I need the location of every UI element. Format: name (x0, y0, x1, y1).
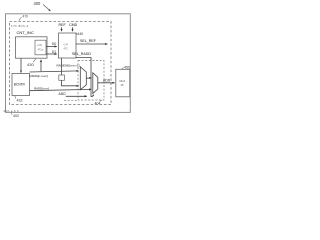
svg-text:ADD: ADD (103, 78, 111, 82)
svg-text:SEL_REF: SEL_REF (80, 39, 97, 43)
svg-text:BCNTR: BCNTR (14, 82, 26, 86)
svg-text:404: 404 (95, 102, 101, 106)
svg-text:C-R: C-R (64, 44, 69, 47)
svg-text:472: 472 (64, 48, 69, 51)
svg-text:432: 432 (17, 98, 23, 102)
svg-text:400: 400 (34, 1, 42, 6)
svg-text:430: 430 (27, 62, 34, 67)
svg-text:MCA: MCA (120, 79, 126, 83)
svg-text:CNT_INC: CNT_INC (17, 30, 34, 35)
svg-text:4Ch a b h: 4Ch a b h (3, 109, 19, 113)
svg-text:ADD: ADD (59, 92, 67, 96)
svg-text:17b 8Ch-4: 17b 8Ch-4 (11, 24, 29, 28)
svg-text:SEL_RADD: SEL_RADD (72, 52, 91, 56)
svg-text:471a: 471a (38, 48, 44, 51)
svg-text:D1: D1 (52, 50, 56, 54)
svg-text:450: 450 (124, 65, 130, 69)
svg-text:470: 470 (23, 15, 29, 19)
svg-text:440: 440 (77, 32, 83, 36)
svg-text:RADD[n-m]: RADD[n-m] (34, 86, 49, 90)
svg-text:+CN: +CN (37, 44, 42, 47)
svg-text:REF: REF (59, 23, 67, 27)
svg-text:RADD[n-m+1]: RADD[n-m+1] (30, 74, 48, 78)
svg-text:CMD: CMD (69, 23, 78, 27)
svg-text:RADEND[n-m+1]: RADEND[n-m+1] (57, 64, 80, 68)
svg-text:402: 402 (13, 114, 19, 118)
svg-text:D0: D0 (52, 42, 56, 46)
